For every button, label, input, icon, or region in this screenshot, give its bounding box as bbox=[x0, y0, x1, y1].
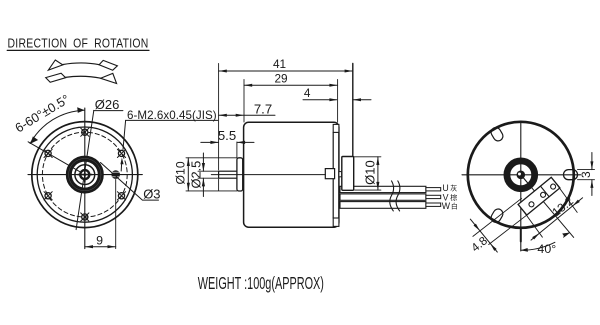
svg-text:WEIGHT :100g(APPROX): WEIGHT :100g(APPROX) bbox=[198, 275, 324, 294]
seam notch bottom bbox=[333, 218, 339, 226]
svg-text:白: 白 bbox=[451, 202, 458, 211]
rear horizontal centerline bbox=[462, 174, 581, 176]
svg-text:41: 41 bbox=[273, 57, 286, 71]
title DIRECTION OF ROTATION bbox=[7, 35, 149, 51]
rotation arrow top bbox=[48, 60, 117, 70]
label d3 bbox=[101, 163, 161, 202]
wire 3 bbox=[340, 202, 426, 209]
svg-text:4: 4 bbox=[304, 86, 311, 100]
dim 4.8 bbox=[468, 198, 526, 254]
svg-text:W: W bbox=[442, 201, 451, 211]
notch top-left bbox=[489, 126, 504, 143]
front view outer circle bbox=[32, 122, 138, 228]
wire 1 tip bbox=[426, 188, 441, 191]
svg-text:6-60°±0.5°: 6-60°±0.5° bbox=[12, 91, 72, 135]
leader arrow below hole 30 bbox=[120, 158, 123, 171]
svg-text:Ø10: Ø10 bbox=[174, 161, 188, 184]
line center to terminal block bbox=[521, 175, 530, 186]
dim 29 bbox=[244, 71, 338, 122]
dim 13.2 bbox=[524, 184, 583, 240]
rotation arrow bottom bbox=[46, 73, 117, 83]
small tab right of body bbox=[339, 172, 342, 177]
notch right capsule bbox=[564, 170, 578, 180]
wire 3 tip bbox=[426, 203, 441, 206]
svg-text:40°: 40° bbox=[537, 242, 556, 256]
svg-text:Ø3: Ø3 bbox=[143, 187, 160, 202]
rear boss bbox=[342, 157, 354, 191]
svg-text:Ø26: Ø26 bbox=[95, 97, 120, 112]
seam notch top bbox=[333, 124, 339, 132]
dim 3 bbox=[578, 153, 595, 196]
dim d2.5 bbox=[188, 153, 218, 197]
mid tab bbox=[325, 169, 334, 179]
dim 7.7 bbox=[219, 102, 275, 117]
svg-text:5.5: 5.5 bbox=[218, 128, 236, 143]
svg-text:9: 9 bbox=[96, 233, 103, 247]
rear center dot bbox=[517, 171, 526, 180]
axis centerline bbox=[211, 174, 325, 176]
dim 4 bbox=[303, 86, 371, 102]
radial line 150deg bbox=[28, 142, 85, 175]
svg-text:Ø10: Ø10 bbox=[362, 160, 377, 185]
dim 5.5 bbox=[201, 128, 254, 158]
front view inner circle bbox=[37, 127, 132, 222]
vertical centerline bbox=[84, 108, 86, 249]
svg-text:U: U bbox=[442, 183, 448, 193]
wire break squiggles bbox=[390, 181, 394, 211]
motor body bbox=[244, 122, 339, 227]
svg-text:7.7: 7.7 bbox=[254, 102, 272, 117]
bolt circle dashed bbox=[42, 132, 127, 217]
dim 9 bbox=[85, 180, 116, 249]
rear bearing ring bbox=[507, 161, 535, 189]
dim 41 bbox=[219, 57, 353, 190]
seam line bbox=[332, 133, 334, 219]
dim d10 left bbox=[174, 158, 237, 191]
shaft boss disc bbox=[79, 169, 90, 180]
screw hole 90 bbox=[81, 128, 89, 136]
svg-text:棕: 棕 bbox=[450, 193, 457, 202]
svg-text:Ø2.5: Ø2.5 bbox=[188, 161, 203, 189]
screw hole 150 bbox=[44, 149, 52, 157]
horizontal centerline bbox=[28, 174, 142, 176]
svg-text:6-M2.6x0.45(JIS): 6-M2.6x0.45(JIS) bbox=[127, 109, 217, 122]
dim d10 right bbox=[354, 157, 381, 190]
Ø26 diameter leader line bbox=[76, 110, 94, 229]
wire 2 tip bbox=[426, 195, 441, 198]
svg-text:29: 29 bbox=[274, 71, 287, 85]
front boss bbox=[237, 158, 243, 191]
hub outer band bbox=[69, 159, 101, 191]
rear axis diagonal line bbox=[521, 175, 574, 238]
shaft bbox=[219, 171, 238, 178]
hub inner ring bbox=[75, 165, 95, 185]
rear view outer circle bbox=[468, 122, 574, 228]
screw hole 30 bbox=[117, 149, 125, 157]
svg-text:3: 3 bbox=[579, 171, 593, 178]
svg-text:4.8: 4.8 bbox=[468, 233, 490, 254]
terminal block bbox=[518, 177, 560, 215]
angle dim 6-60 arc bbox=[12, 91, 84, 144]
wire 2 bbox=[340, 194, 426, 200]
svg-text:灰: 灰 bbox=[450, 183, 457, 192]
dim 40deg arc bbox=[521, 233, 570, 256]
label 6-M2.6x0.45(JIS) bbox=[123, 109, 218, 150]
pin hole d3 bbox=[111, 170, 120, 179]
screw hole 210 bbox=[44, 192, 52, 200]
wire 1 bbox=[340, 186, 426, 192]
label d26 bbox=[94, 97, 123, 112]
notch bottom-left bbox=[489, 207, 504, 224]
svg-text:DIRECTION OF ROTATION: DIRECTION OF ROTATION bbox=[8, 35, 149, 51]
screw hole 330 bbox=[117, 192, 125, 200]
screw hole 270 bbox=[81, 213, 89, 221]
rear vertical centerline bbox=[520, 121, 522, 251]
